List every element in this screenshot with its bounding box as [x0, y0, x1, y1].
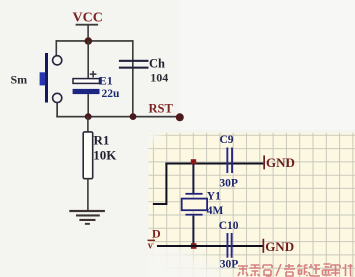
grid paper background (right lower schematic fragment) — [149, 133, 355, 277]
terminal dot RST — [176, 113, 184, 121]
svg-text:4M: 4M — [207, 205, 224, 217]
wire Y1 top lead — [192, 164, 194, 194]
junction E1 bottom rail — [85, 113, 92, 120]
wire E1 top lead — [87, 41, 89, 79]
svg-text:C10: C10 — [219, 220, 239, 232]
wire E1 bottom lead — [87, 94, 89, 117]
capacitor Ch plates — [119, 60, 149, 69]
svg-text:Sm: Sm — [11, 73, 28, 87]
wire Y1 bottom lead — [192, 216, 194, 247]
power flag GND top — [263, 155, 295, 170]
label v with overbar (clipped pin text) — [148, 240, 156, 252]
svg-text:30P: 30P — [219, 177, 238, 189]
power flag VCC — [73, 11, 103, 42]
svg-text:RST: RST — [149, 102, 174, 116]
svg-text:22u: 22u — [102, 88, 121, 100]
crystal Y1 — [182, 193, 207, 216]
capacitor C10 plates — [227, 233, 233, 258]
junction Ch bottom rail — [130, 113, 137, 120]
wire Ch branch vertical — [132, 40, 134, 117]
wire XTAL stub (left pin stub on grid) — [153, 203, 167, 205]
svg-text:E1: E1 — [99, 73, 113, 87]
capacitor E1 top plate — [73, 79, 100, 84]
resistor R1 body — [83, 132, 93, 179]
junction VCC rail — [85, 37, 93, 45]
svg-text:VCC: VCC — [73, 11, 103, 26]
junction Y1 bottom / C10 — [191, 243, 197, 249]
watermark text (pink CJK strokes) — [238, 264, 353, 276]
capacitor E1 plus sign — [90, 71, 97, 78]
ground symbol — [69, 210, 105, 225]
svg-text:v: v — [148, 240, 153, 251]
svg-text:C9: C9 — [220, 134, 234, 146]
svg-text:104: 104 — [150, 70, 168, 84]
capacitor E1 bottom plate — [73, 89, 100, 94]
svg-text:Ch: Ch — [149, 57, 165, 71]
junction Y1 top / C9 — [191, 159, 196, 164]
wire top rail — [56, 40, 134, 42]
svg-text:10K: 10K — [93, 148, 117, 163]
svg-text:30P: 30P — [220, 259, 239, 271]
wire R1 bottom lead — [87, 179, 89, 210]
svg-text:GND: GND — [266, 155, 295, 170]
svg-text:R1: R1 — [94, 133, 110, 148]
svg-text:Y1: Y1 — [207, 190, 221, 202]
svg-text:D: D — [152, 227, 161, 241]
wire top net to C9 and GND — [165, 163, 263, 165]
switch Sm — [40, 53, 62, 103]
power flag GND bottom — [263, 239, 295, 254]
wire switch bottom drop — [56, 103, 58, 118]
wire XTAL vertical riser — [165, 163, 167, 206]
wire bottom rail (RST net) — [56, 116, 180, 118]
wire bottom net to C10 and GND — [157, 245, 263, 247]
svg-text:GND: GND — [265, 239, 294, 254]
wire R1 top lead — [87, 117, 89, 133]
capacitor C9 plates — [226, 148, 233, 174]
wire switch top drop — [56, 40, 58, 55]
